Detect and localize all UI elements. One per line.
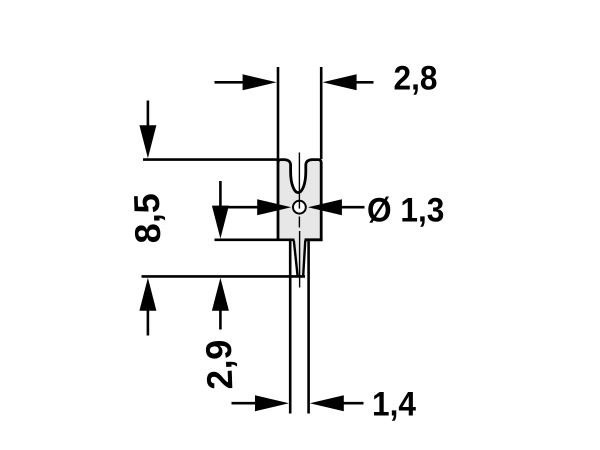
- up arrow 2,9: [212, 278, 229, 311]
- centerline seg3: [299, 231, 301, 288]
- svg-text:2,8: 2,8: [394, 59, 438, 97]
- dia arrow right: [308, 199, 342, 215]
- pin right edge: [307, 240, 310, 414]
- left body edge: [277, 160, 280, 240]
- dim line 2,8 right: [352, 81, 374, 84]
- dia dim line right: [338, 206, 365, 209]
- step bottom edge right: [305, 238, 323, 241]
- centerline seg2: [298, 217, 300, 228]
- dim line 1,4 right: [340, 402, 364, 405]
- arrow 2,8 right: [323, 74, 357, 90]
- extension line left (2,8): [277, 67, 280, 160]
- arrow 1,4 left: [255, 395, 289, 411]
- body outline: [278, 160, 321, 240]
- pin left edge: [289, 240, 292, 414]
- hole: [293, 201, 306, 214]
- terminal body (grey flat part): [278, 160, 321, 277]
- ref line top of 8,5: [143, 158, 279, 161]
- dia arrow left: [257, 199, 291, 215]
- dim line 1,4 left: [232, 402, 261, 405]
- svg-text:8,5: 8,5: [126, 193, 169, 244]
- down arrow 2,9: [219, 181, 222, 211]
- taper line right: [303, 241, 305, 278]
- extension line right (2,8): [320, 67, 323, 159]
- svg-text:2,9: 2,9: [198, 339, 241, 390]
- step bottom edge left: [215, 239, 295, 242]
- dim line 2,8 left: [215, 81, 249, 84]
- ref line bottom of 8,5 / taper end: [142, 275, 306, 278]
- down arrow 8,5: [147, 101, 150, 131]
- taper line left: [294, 241, 298, 276]
- dia dim line left: [215, 206, 263, 209]
- arrow 2,8 left: [243, 74, 277, 90]
- svg-text:1,4: 1,4: [372, 384, 417, 422]
- centerline seg1: [298, 153, 300, 209]
- arrow 1,4 right: [310, 395, 344, 411]
- svg-text:Ø 1,3: Ø 1,3: [367, 190, 444, 228]
- up arrow 8,5: [139, 278, 156, 311]
